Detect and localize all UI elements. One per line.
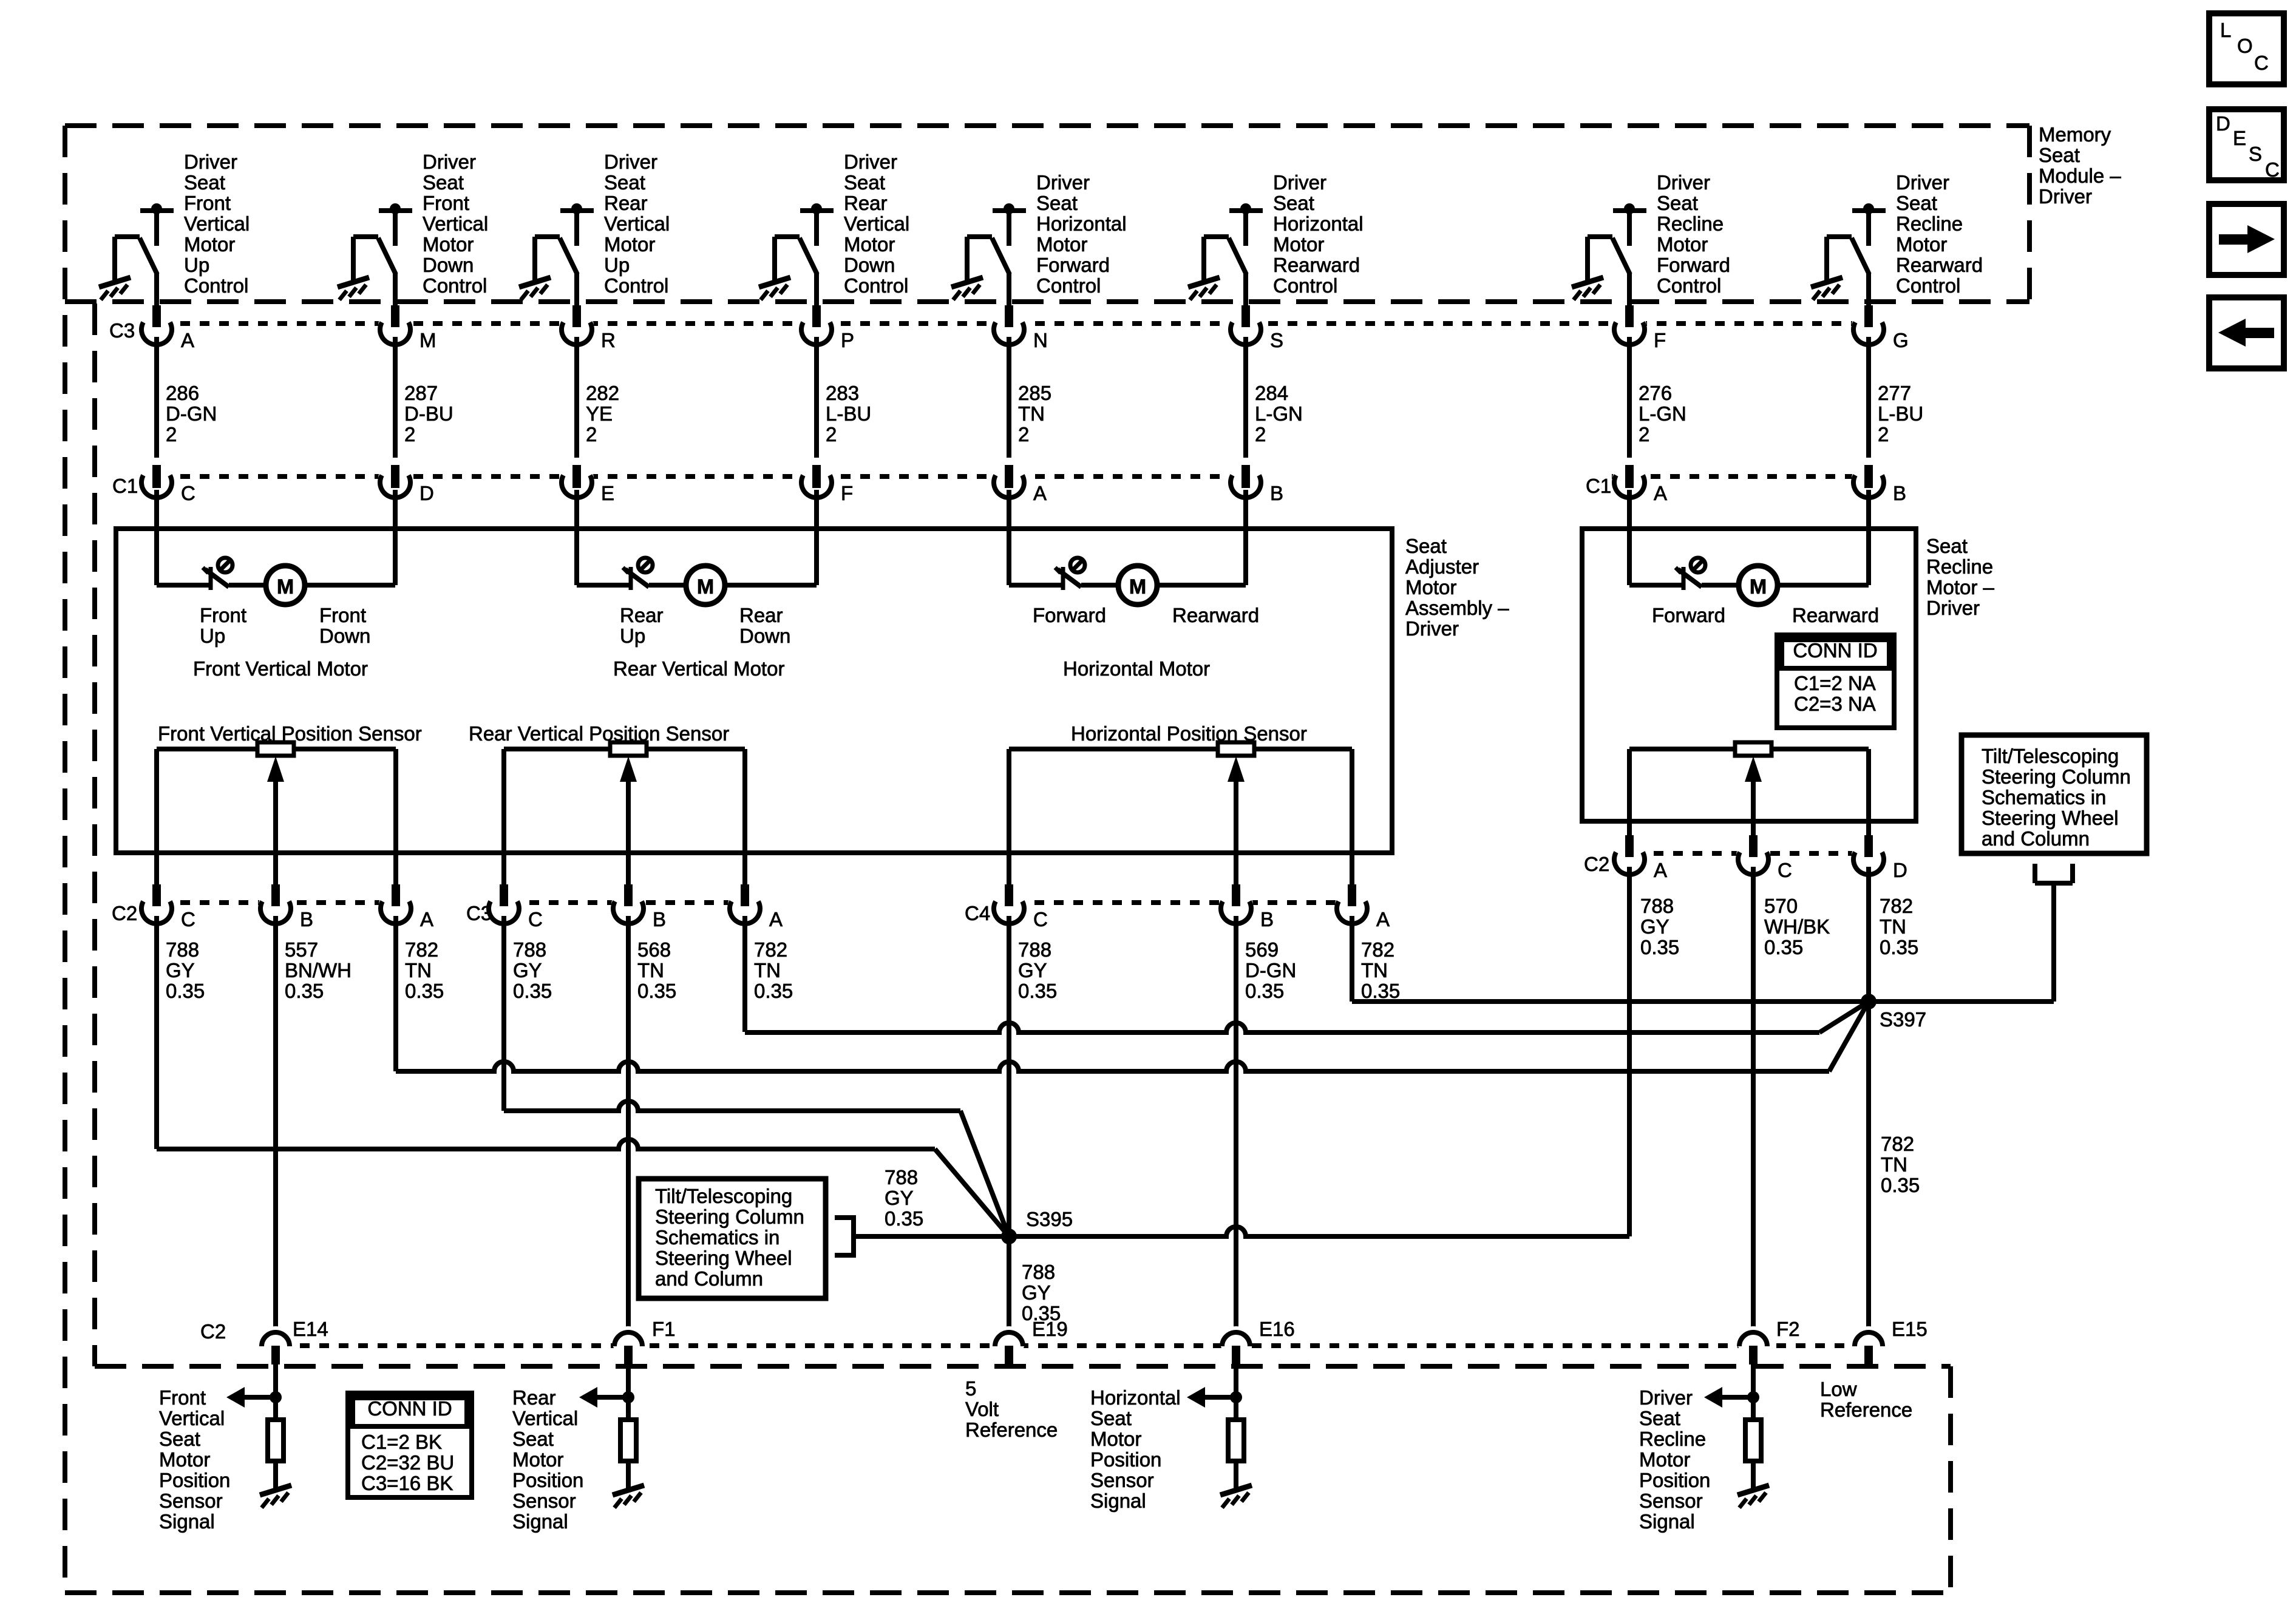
svg-text:WH/BK: WH/BK bbox=[1764, 915, 1830, 938]
svg-text:C: C bbox=[181, 908, 195, 931]
svg-text:Horizontal Position Sensor: Horizontal Position Sensor bbox=[1071, 722, 1307, 745]
svg-text:Control: Control bbox=[1896, 274, 1960, 297]
svg-text:Position: Position bbox=[159, 1469, 230, 1491]
svg-text:D: D bbox=[1893, 859, 1907, 881]
svg-text:Motor: Motor bbox=[1405, 576, 1456, 598]
svg-text:Control: Control bbox=[1036, 274, 1101, 297]
svg-text:F: F bbox=[841, 482, 853, 504]
svg-text:2: 2 bbox=[1255, 423, 1266, 446]
svg-text:282: 282 bbox=[586, 382, 619, 404]
svg-text:Position: Position bbox=[1090, 1448, 1161, 1471]
svg-text:C2: C2 bbox=[200, 1320, 226, 1343]
svg-text:0.35: 0.35 bbox=[285, 980, 324, 1002]
svg-text:Rearward: Rearward bbox=[1792, 604, 1879, 626]
svg-text:E: E bbox=[601, 482, 614, 504]
svg-text:Horizontal: Horizontal bbox=[1273, 212, 1364, 235]
svg-text:2: 2 bbox=[166, 423, 177, 446]
svg-text:Steering Wheel: Steering Wheel bbox=[655, 1247, 792, 1269]
svg-text:Signal: Signal bbox=[512, 1510, 568, 1533]
svg-text:782: 782 bbox=[1881, 1133, 1914, 1155]
svg-text:Driver: Driver bbox=[1896, 171, 1949, 194]
svg-text:Up: Up bbox=[620, 625, 645, 647]
svg-text:788: 788 bbox=[1018, 938, 1051, 961]
svg-text:D-BU: D-BU bbox=[404, 402, 453, 425]
svg-text:286: 286 bbox=[166, 382, 199, 404]
svg-text:TN: TN bbox=[637, 959, 664, 981]
svg-text:0.35: 0.35 bbox=[166, 980, 205, 1002]
svg-text:Motor: Motor bbox=[1896, 233, 1947, 256]
svg-text:Seat: Seat bbox=[844, 171, 885, 194]
svg-text:Driver: Driver bbox=[2039, 185, 2092, 208]
svg-text:YE: YE bbox=[586, 402, 613, 425]
svg-text:2: 2 bbox=[404, 423, 415, 446]
svg-text:782: 782 bbox=[1361, 938, 1394, 961]
svg-text:D-GN: D-GN bbox=[1245, 959, 1296, 981]
svg-text:D: D bbox=[2216, 112, 2230, 135]
svg-text:Motor: Motor bbox=[604, 233, 655, 256]
svg-text:A: A bbox=[1654, 482, 1667, 504]
svg-text:Forward: Forward bbox=[1033, 604, 1106, 626]
svg-text:GY: GY bbox=[513, 959, 542, 981]
svg-text:C: C bbox=[1033, 908, 1048, 931]
svg-text:Front: Front bbox=[184, 192, 231, 214]
svg-text:Front: Front bbox=[423, 192, 469, 214]
svg-text:283: 283 bbox=[826, 382, 859, 404]
svg-text:C: C bbox=[2265, 158, 2280, 181]
svg-text:M: M bbox=[697, 575, 714, 598]
svg-text:Front Vertical Motor: Front Vertical Motor bbox=[193, 657, 368, 680]
svg-text:Seat: Seat bbox=[512, 1428, 554, 1450]
svg-text:L-GN: L-GN bbox=[1255, 402, 1303, 425]
svg-text:Motor: Motor bbox=[1639, 1448, 1690, 1471]
svg-text:Reference: Reference bbox=[965, 1419, 1058, 1441]
svg-text:A: A bbox=[1033, 482, 1047, 504]
svg-text:788: 788 bbox=[885, 1166, 918, 1188]
svg-text:Driver: Driver bbox=[1657, 171, 1710, 194]
svg-text:Driver: Driver bbox=[1926, 597, 1980, 619]
svg-text:568: 568 bbox=[637, 938, 671, 961]
svg-text:C3: C3 bbox=[109, 319, 135, 342]
svg-text:Vertical: Vertical bbox=[604, 212, 670, 235]
svg-text:Schematics in: Schematics in bbox=[1982, 786, 2106, 808]
svg-text:B: B bbox=[1260, 908, 1274, 931]
svg-text:and Column: and Column bbox=[655, 1267, 763, 1290]
svg-text:0.35: 0.35 bbox=[1361, 980, 1400, 1002]
svg-text:Recline: Recline bbox=[1926, 555, 1993, 578]
svg-text:Control: Control bbox=[1273, 274, 1337, 297]
svg-text:Rear: Rear bbox=[620, 604, 664, 626]
svg-text:0.35: 0.35 bbox=[1018, 980, 1057, 1002]
svg-text:Vertical: Vertical bbox=[423, 212, 488, 235]
svg-text:Vertical: Vertical bbox=[184, 212, 250, 235]
svg-text:C2=3 NA: C2=3 NA bbox=[1794, 693, 1876, 715]
svg-text:0.35: 0.35 bbox=[1881, 1174, 1920, 1196]
svg-text:284: 284 bbox=[1255, 382, 1288, 404]
svg-text:S: S bbox=[2249, 143, 2262, 165]
svg-text:Driver: Driver bbox=[423, 151, 476, 173]
svg-text:Low: Low bbox=[1820, 1378, 1857, 1400]
svg-text:Vertical: Vertical bbox=[844, 212, 909, 235]
svg-text:Control: Control bbox=[1657, 274, 1721, 297]
svg-text:C2: C2 bbox=[1584, 853, 1609, 875]
svg-text:GY: GY bbox=[166, 959, 195, 981]
svg-text:276: 276 bbox=[1639, 382, 1672, 404]
svg-text:B: B bbox=[300, 908, 313, 931]
svg-text:Vertical: Vertical bbox=[159, 1407, 225, 1429]
svg-text:Seat: Seat bbox=[423, 171, 464, 194]
svg-text:Seat: Seat bbox=[2039, 144, 2080, 166]
svg-text:L-GN: L-GN bbox=[1639, 402, 1686, 425]
svg-text:Down: Down bbox=[844, 254, 895, 276]
svg-text:0.35: 0.35 bbox=[405, 980, 444, 1002]
svg-text:Sensor: Sensor bbox=[1090, 1469, 1154, 1491]
svg-text:Seat: Seat bbox=[1926, 535, 1968, 557]
svg-text:S395: S395 bbox=[1026, 1208, 1073, 1230]
svg-text:Driver: Driver bbox=[1036, 171, 1090, 194]
svg-text:Horizontal: Horizontal bbox=[1036, 212, 1127, 235]
svg-text:Driver: Driver bbox=[184, 151, 237, 173]
svg-text:Position: Position bbox=[1639, 1469, 1710, 1491]
svg-text:TN: TN bbox=[1880, 915, 1906, 938]
svg-text:0.35: 0.35 bbox=[513, 980, 552, 1002]
svg-text:Seat: Seat bbox=[159, 1428, 200, 1450]
svg-text:Motor: Motor bbox=[184, 233, 235, 256]
svg-text:D: D bbox=[419, 482, 434, 504]
svg-text:Control: Control bbox=[423, 274, 487, 297]
svg-text:Motor: Motor bbox=[423, 233, 474, 256]
svg-text:C4: C4 bbox=[965, 902, 990, 924]
svg-text:B: B bbox=[653, 908, 666, 931]
svg-text:C: C bbox=[1778, 859, 1792, 881]
svg-text:GY: GY bbox=[885, 1187, 914, 1209]
svg-text:B: B bbox=[1270, 482, 1283, 504]
svg-text:Seat: Seat bbox=[1405, 535, 1447, 557]
svg-text:Seat: Seat bbox=[1273, 192, 1314, 214]
svg-text:Driver: Driver bbox=[604, 151, 657, 173]
svg-text:Rear Vertical Motor: Rear Vertical Motor bbox=[613, 657, 784, 680]
svg-text:Motor: Motor bbox=[1036, 233, 1087, 256]
svg-text:Vertical: Vertical bbox=[512, 1407, 578, 1429]
svg-text:788: 788 bbox=[513, 938, 546, 961]
svg-text:Reference: Reference bbox=[1820, 1398, 1912, 1421]
svg-text:Down: Down bbox=[739, 625, 790, 647]
svg-text:2: 2 bbox=[1018, 423, 1029, 446]
svg-text:Driver: Driver bbox=[1639, 1386, 1693, 1409]
svg-text:Front: Front bbox=[319, 604, 366, 626]
svg-text:0.35: 0.35 bbox=[1880, 936, 1918, 958]
svg-text:0.35: 0.35 bbox=[1245, 980, 1284, 1002]
svg-text:GY: GY bbox=[1640, 915, 1669, 938]
svg-text:Down: Down bbox=[423, 254, 474, 276]
svg-text:Volt: Volt bbox=[965, 1398, 999, 1420]
svg-text:GY: GY bbox=[1022, 1281, 1051, 1304]
svg-text:0.35: 0.35 bbox=[754, 980, 793, 1002]
svg-text:5: 5 bbox=[965, 1377, 976, 1400]
svg-text:Control: Control bbox=[184, 274, 248, 297]
svg-text:A: A bbox=[1376, 908, 1390, 931]
svg-text:Tilt/Telescoping: Tilt/Telescoping bbox=[655, 1185, 792, 1207]
svg-text:Module –: Module – bbox=[2039, 164, 2121, 187]
svg-text:C: C bbox=[528, 908, 543, 931]
svg-text:F1: F1 bbox=[652, 1318, 676, 1340]
svg-text:287: 287 bbox=[404, 382, 438, 404]
svg-text:Seat: Seat bbox=[604, 171, 645, 194]
svg-text:Recline: Recline bbox=[1896, 212, 1963, 235]
svg-text:Up: Up bbox=[200, 625, 225, 647]
svg-text:C3: C3 bbox=[466, 902, 492, 924]
svg-text:M: M bbox=[1129, 575, 1146, 598]
svg-text:E: E bbox=[2233, 127, 2246, 149]
svg-text:Sensor: Sensor bbox=[512, 1490, 576, 1512]
svg-text:C1: C1 bbox=[112, 475, 138, 497]
svg-text:L: L bbox=[2220, 19, 2231, 41]
svg-text:569: 569 bbox=[1245, 938, 1279, 961]
svg-text:Forward: Forward bbox=[1036, 254, 1110, 276]
svg-text:C2=32 BU: C2=32 BU bbox=[361, 1451, 454, 1474]
svg-text:D-GN: D-GN bbox=[166, 402, 217, 425]
svg-text:Motor: Motor bbox=[1273, 233, 1324, 256]
svg-text:Rear: Rear bbox=[604, 192, 648, 214]
svg-text:and Column: and Column bbox=[1982, 827, 2090, 850]
svg-text:Steering Column: Steering Column bbox=[1982, 765, 2131, 788]
svg-text:Sensor: Sensor bbox=[1639, 1490, 1703, 1512]
svg-text:Signal: Signal bbox=[1090, 1490, 1146, 1512]
svg-text:Rear: Rear bbox=[739, 604, 783, 626]
svg-text:C2: C2 bbox=[112, 902, 137, 924]
svg-text:TN: TN bbox=[754, 959, 781, 981]
svg-text:Rearward: Rearward bbox=[1172, 604, 1259, 626]
svg-text:TN: TN bbox=[1361, 959, 1388, 981]
svg-text:Rearward: Rearward bbox=[1896, 254, 1983, 276]
svg-text:C3=16 BK: C3=16 BK bbox=[361, 1472, 453, 1494]
svg-text:Adjuster: Adjuster bbox=[1405, 555, 1479, 578]
svg-text:Up: Up bbox=[184, 254, 209, 276]
svg-text:Signal: Signal bbox=[159, 1510, 215, 1533]
svg-text:M: M bbox=[1750, 575, 1767, 598]
svg-text:Seat: Seat bbox=[1036, 192, 1078, 214]
svg-text:L-BU: L-BU bbox=[826, 402, 871, 425]
svg-text:CONN ID: CONN ID bbox=[1793, 639, 1877, 662]
svg-text:Down: Down bbox=[319, 625, 370, 647]
svg-text:Steering Column: Steering Column bbox=[655, 1205, 804, 1228]
svg-text:788: 788 bbox=[1640, 895, 1674, 917]
svg-text:C1=2 BK: C1=2 BK bbox=[361, 1431, 442, 1453]
svg-text:Steering Wheel: Steering Wheel bbox=[1982, 807, 2119, 829]
svg-text:Motor: Motor bbox=[1090, 1428, 1141, 1450]
svg-text:M: M bbox=[277, 575, 294, 598]
svg-text:BN/WH: BN/WH bbox=[285, 959, 352, 981]
svg-text:Sensor: Sensor bbox=[159, 1490, 223, 1512]
svg-text:Motor: Motor bbox=[512, 1448, 563, 1471]
svg-text:Control: Control bbox=[604, 274, 668, 297]
svg-text:Memory: Memory bbox=[2039, 123, 2111, 146]
svg-text:A: A bbox=[769, 908, 783, 931]
svg-text:F2: F2 bbox=[1776, 1318, 1800, 1340]
svg-text:O: O bbox=[2237, 35, 2253, 57]
svg-text:2: 2 bbox=[826, 423, 837, 446]
svg-text:Control: Control bbox=[844, 274, 908, 297]
svg-text:Schematics in: Schematics in bbox=[655, 1226, 779, 1249]
svg-text:782: 782 bbox=[754, 938, 787, 961]
svg-text:GY: GY bbox=[1018, 959, 1047, 981]
svg-text:Signal: Signal bbox=[1639, 1510, 1695, 1533]
svg-text:Rear: Rear bbox=[512, 1386, 556, 1409]
svg-text:TN: TN bbox=[1881, 1153, 1907, 1176]
svg-text:P: P bbox=[841, 329, 854, 351]
svg-text:A: A bbox=[420, 908, 433, 931]
svg-text:C1: C1 bbox=[1586, 475, 1611, 497]
svg-text:782: 782 bbox=[1880, 895, 1913, 917]
svg-text:2: 2 bbox=[586, 423, 597, 446]
svg-text:2: 2 bbox=[1639, 423, 1649, 446]
svg-text:R: R bbox=[601, 329, 616, 351]
svg-text:Front: Front bbox=[159, 1386, 206, 1409]
svg-text:788: 788 bbox=[166, 938, 199, 961]
svg-text:Driver: Driver bbox=[1273, 171, 1326, 194]
svg-text:E19: E19 bbox=[1032, 1318, 1068, 1340]
svg-text:TN: TN bbox=[1018, 402, 1045, 425]
svg-text:Driver: Driver bbox=[844, 151, 897, 173]
svg-text:Seat: Seat bbox=[1896, 192, 1937, 214]
svg-text:Tilt/Telescoping: Tilt/Telescoping bbox=[1982, 745, 2119, 767]
svg-text:Rear Vertical Position Sensor: Rear Vertical Position Sensor bbox=[469, 722, 729, 745]
svg-text:TN: TN bbox=[405, 959, 432, 981]
svg-text:Seat: Seat bbox=[1639, 1407, 1680, 1429]
svg-text:Forward: Forward bbox=[1652, 604, 1725, 626]
svg-text:Recline: Recline bbox=[1657, 212, 1724, 235]
svg-text:E16: E16 bbox=[1259, 1318, 1295, 1340]
svg-text:Position: Position bbox=[512, 1469, 583, 1491]
svg-text:285: 285 bbox=[1018, 382, 1051, 404]
svg-text:0.35: 0.35 bbox=[885, 1207, 923, 1230]
svg-text:Front: Front bbox=[200, 604, 246, 626]
svg-text:Driver: Driver bbox=[1405, 617, 1459, 640]
svg-text:A: A bbox=[181, 329, 194, 351]
svg-text:Motor –: Motor – bbox=[1926, 576, 1995, 598]
svg-text:G: G bbox=[1893, 329, 1909, 351]
svg-text:557: 557 bbox=[285, 938, 318, 961]
svg-text:Motor: Motor bbox=[1657, 233, 1708, 256]
svg-text:Motor: Motor bbox=[159, 1448, 210, 1471]
svg-text:0.35: 0.35 bbox=[1640, 936, 1679, 958]
svg-text:Rear: Rear bbox=[844, 192, 888, 214]
svg-text:Seat: Seat bbox=[1657, 192, 1698, 214]
svg-text:Up: Up bbox=[604, 254, 630, 276]
svg-text:C1=2 NA: C1=2 NA bbox=[1794, 672, 1876, 694]
svg-text:F: F bbox=[1654, 329, 1666, 351]
svg-text:Recline: Recline bbox=[1639, 1428, 1706, 1450]
svg-text:0.35: 0.35 bbox=[1764, 936, 1803, 958]
svg-text:B: B bbox=[1893, 482, 1906, 504]
svg-text:Seat: Seat bbox=[1090, 1407, 1132, 1429]
svg-text:0.35: 0.35 bbox=[637, 980, 676, 1002]
svg-text:277: 277 bbox=[1878, 382, 1911, 404]
svg-text:Assembly –: Assembly – bbox=[1405, 597, 1509, 619]
svg-text:Horizontal Motor: Horizontal Motor bbox=[1063, 657, 1210, 680]
svg-text:Motor: Motor bbox=[844, 233, 895, 256]
svg-text:C: C bbox=[2254, 52, 2269, 74]
svg-text:570: 570 bbox=[1764, 895, 1798, 917]
svg-text:S: S bbox=[1270, 329, 1283, 351]
svg-text:CONN ID: CONN ID bbox=[367, 1397, 452, 1420]
svg-text:C: C bbox=[181, 482, 195, 504]
svg-text:A: A bbox=[1654, 859, 1667, 881]
svg-text:E15: E15 bbox=[1892, 1318, 1927, 1340]
svg-text:2: 2 bbox=[1878, 423, 1889, 446]
svg-text:782: 782 bbox=[405, 938, 438, 961]
svg-text:M: M bbox=[419, 329, 436, 351]
svg-text:Forward: Forward bbox=[1657, 254, 1730, 276]
svg-text:N: N bbox=[1033, 329, 1048, 351]
svg-text:788: 788 bbox=[1022, 1261, 1055, 1283]
svg-text:E14: E14 bbox=[293, 1318, 328, 1340]
svg-text:Seat: Seat bbox=[184, 171, 225, 194]
svg-text:S397: S397 bbox=[1880, 1008, 1926, 1031]
svg-text:L-BU: L-BU bbox=[1878, 402, 1923, 425]
svg-text:Rearward: Rearward bbox=[1273, 254, 1360, 276]
svg-text:Horizontal: Horizontal bbox=[1090, 1386, 1181, 1409]
